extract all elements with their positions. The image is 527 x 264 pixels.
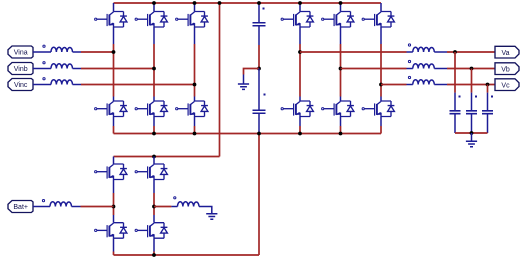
inductor Lfa — [407, 44, 448, 52]
svg-text:Vinb: Vinb — [14, 66, 28, 73]
wire from top bus down to H-bridge top rail — [219, 3, 221, 157]
node Q3 drain on top bus — [193, 1, 197, 5]
capacitor C2 (DC link bottom) — [253, 69, 266, 134]
wire Lfc to Vc — [447, 84, 495, 86]
wire DC midpoint to ground — [244, 69, 260, 75]
source Vina — [8, 46, 33, 58]
wire Vinc to inductor Lc — [33, 84, 51, 86]
capacitor Cfa — [450, 93, 461, 133]
node Q16 source on bottom rail — [152, 253, 156, 257]
capacitor Cfb — [466, 93, 477, 133]
node B2 — [339, 67, 343, 71]
node H-bridge rail Q14 drain — [152, 155, 156, 159]
wire Q13 source to node Bat1 — [113, 193, 115, 215]
inductor Lfc — [407, 76, 448, 84]
node tap A — [453, 50, 457, 54]
inductor Lbat — [42, 200, 71, 207]
node A1 — [112, 50, 116, 54]
wire filter cap common — [455, 132, 488, 134]
transistor Q3 (rectifier top phase C) — [176, 3, 208, 44]
node Q5 source on bottom bus — [152, 132, 156, 136]
node DC link bottom — [257, 132, 261, 136]
transistor Q7 (inverter top phase A) — [281, 3, 313, 44]
transistor Q12 (inverter bottom phase C) — [362, 97, 394, 127]
label Vb — [495, 63, 519, 75]
svg-text:Bat+: Bat+ — [13, 204, 28, 211]
wire Q12 source to bottom bus — [380, 126, 382, 134]
wire Lbat lead — [72, 206, 81, 208]
node tap B — [470, 67, 474, 71]
wire La to phase node A1 — [81, 51, 114, 53]
node Bat1 — [112, 205, 116, 209]
node DC midpoint — [257, 67, 261, 71]
wire Vinb to inductor Lb — [33, 68, 51, 70]
wire Q9 source to node C2 — [380, 44, 382, 97]
wire Lfa to Va — [447, 51, 495, 53]
svg-text:Vc: Vc — [501, 82, 510, 89]
wire Q10 source to bottom bus — [299, 126, 301, 134]
source Vinb — [8, 63, 33, 75]
wire Lc to phase node C1 — [81, 84, 195, 86]
transistor Q8 (inverter top phase B) — [322, 3, 354, 44]
wire La lead — [73, 51, 82, 53]
wire Lb to phase node B1 — [81, 68, 154, 70]
node Bat2 — [152, 205, 156, 209]
inductor Lout — [171, 197, 199, 207]
node C2 — [379, 83, 383, 87]
wire node A2 to output inductor Lfa — [300, 51, 407, 53]
wire Bat+ to inductor Lbat — [33, 206, 50, 208]
wire Q8 source to node B2 — [340, 44, 342, 97]
transistor Q1 (rectifier top phase A) — [95, 3, 127, 44]
label Va — [495, 46, 519, 58]
ground (filter) — [466, 133, 477, 147]
wire Lc lead — [73, 84, 82, 86]
capacitor Cfc — [482, 93, 493, 133]
node Q10 source on bottom bus — [298, 132, 302, 136]
wire Q3 source to node C1 — [194, 44, 196, 97]
transistor Q11 (inverter bottom phase B) — [322, 97, 354, 127]
wire C1 to DC midpoint — [258, 45, 260, 69]
node Q7 drain on top bus — [298, 1, 302, 5]
transistor Q16 (H-bridge bottom right) — [135, 215, 167, 252]
inductor Lc — [43, 78, 73, 85]
wire H-bridge bottom rail — [114, 254, 260, 256]
node tap C — [486, 83, 490, 87]
wire node Bat2 to inductor Lout — [154, 206, 171, 208]
wire tap A down to filter cap Cfa — [454, 52, 456, 93]
capacitor C1 (DC link top) — [253, 3, 266, 45]
transistor Q15 (H-bridge bottom left) — [95, 215, 127, 252]
node C1 — [193, 83, 197, 87]
wire Q2 source to node B1 — [153, 44, 155, 97]
transistor Q10 (inverter bottom phase A) — [281, 97, 313, 127]
wire Lfb to Vb — [447, 68, 495, 70]
ground (DC midpoint) — [238, 75, 249, 90]
wire top DC bus — [114, 2, 382, 4]
ground (H-bridge output) — [206, 214, 217, 219]
transistor Q5 (rectifier bottom phase B) — [135, 97, 167, 127]
wire tap C down to filter cap Cfc — [487, 85, 489, 93]
inductor Lfb — [407, 60, 448, 68]
svg-text:Vina: Vina — [14, 50, 28, 57]
wire Q11 source to bottom bus — [340, 126, 342, 134]
wire from bottom bus down to H-bridge bottom rail — [258, 134, 260, 256]
transistor Q9 (inverter top phase C) — [362, 3, 394, 44]
transistor Q6 (rectifier bottom phase C) — [176, 97, 208, 127]
source Bat+ — [8, 201, 33, 213]
transistor Q2 (rectifier top phase B) — [135, 3, 167, 44]
wire Q15 source to bottom rail — [113, 252, 115, 256]
wire tap B down to filter cap Cfb — [471, 69, 473, 93]
wire H-bridge top rail — [114, 156, 220, 158]
wire bottom DC bus — [114, 133, 382, 135]
node H-bridge feed on top bus — [218, 1, 222, 5]
transistor Q13 (H-bridge top left) — [95, 157, 127, 194]
wire Q4 source to bottom bus — [113, 126, 115, 134]
wire Q16 source to bottom rail — [153, 252, 155, 256]
inductor La — [43, 45, 73, 52]
wire Q7 source to node A2 — [299, 44, 301, 97]
node DC link top — [257, 1, 261, 5]
svg-text:Va: Va — [501, 50, 509, 57]
wire node B2 to output inductor Lfb — [341, 68, 407, 70]
node Q6 source on bottom bus — [193, 132, 197, 136]
source Vinc — [8, 79, 33, 91]
wire Q1 source to node A1 — [113, 44, 115, 97]
transistor Q14 (H-bridge top right) — [135, 157, 167, 194]
node Q11 source on bottom bus — [339, 132, 343, 136]
wire Lout to ground — [199, 207, 212, 214]
wire Vina to inductor La — [33, 51, 51, 53]
svg-text:Vinc: Vinc — [14, 82, 28, 89]
node A2 — [298, 50, 302, 54]
wire Q6 source to bottom bus — [194, 126, 196, 134]
transistor Q4 (rectifier bottom phase A) — [95, 97, 127, 127]
inductor Lb — [43, 62, 73, 69]
wire Q5 source to bottom bus — [153, 126, 155, 134]
node filter star point — [470, 131, 474, 135]
wire Lbat to node Bat1 — [81, 206, 114, 208]
wire Q14 source to node Bat2 — [153, 193, 155, 215]
svg-text:Vb: Vb — [501, 66, 510, 73]
wire Lb lead — [73, 68, 82, 70]
node B1 — [152, 67, 156, 71]
label Vc — [495, 79, 519, 91]
node Q8 drain on top bus — [339, 1, 343, 5]
wire node C2 to output inductor Lfc — [381, 84, 407, 86]
node Q2 drain on top bus — [152, 1, 156, 5]
